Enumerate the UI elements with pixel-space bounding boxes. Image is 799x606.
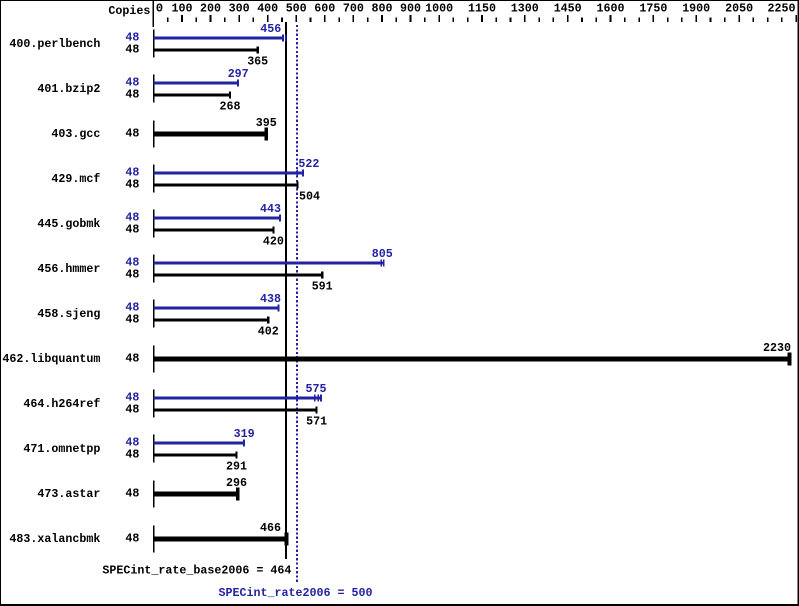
bar 483.xalancbmk base — [154, 533, 289, 546]
bar 401.bzip2 peak — [154, 79, 240, 86]
svg-text:600: 600 — [314, 2, 335, 16]
group spine 471.omnetpp — [153, 435, 155, 463]
svg-text:48: 48 — [125, 448, 139, 462]
x-axis minor tick marks — [167, 18, 783, 23]
group spine 464.h264ref — [153, 390, 155, 418]
group spine 483.xalancbmk — [153, 526, 155, 553]
svg-text:500: 500 — [286, 2, 307, 16]
svg-text:462.libquantum: 462.libquantum — [2, 352, 100, 366]
svg-text:438: 438 — [260, 292, 281, 306]
svg-text:466: 466 — [260, 521, 281, 535]
svg-text:1450: 1450 — [554, 2, 582, 16]
svg-text:200: 200 — [200, 2, 221, 16]
group spine 445.gobmk — [153, 210, 155, 238]
bar 429.mcf peak — [154, 169, 304, 176]
SPECint_rate_base2006 mean solid line at 464 — [285, 22, 287, 559]
svg-text:48: 48 — [125, 532, 139, 546]
group spine 456.hmmer — [153, 255, 155, 283]
svg-text:401.bzip2: 401.bzip2 — [37, 82, 100, 96]
bar 400.perlbench base — [154, 46, 259, 53]
group spine 462.libquantum — [153, 346, 155, 373]
svg-text:473.astar: 473.astar — [37, 487, 100, 501]
svg-text:48: 48 — [125, 88, 139, 102]
svg-text:297: 297 — [228, 67, 249, 81]
bar 464.h264ref peak — [154, 394, 322, 401]
bar 403.gcc base — [154, 128, 269, 141]
x-axis scale labels — [156, 2, 796, 16]
svg-text:420: 420 — [263, 235, 284, 249]
group spine 473.astar — [153, 481, 155, 508]
svg-text:456.hmmer: 456.hmmer — [37, 262, 100, 276]
svg-text:1000: 1000 — [425, 2, 453, 16]
svg-text:2050: 2050 — [725, 2, 753, 16]
svg-text:0: 0 — [156, 2, 163, 16]
bar 445.gobmk base — [154, 226, 275, 233]
svg-text:1900: 1900 — [682, 2, 710, 16]
svg-text:268: 268 — [220, 100, 241, 114]
svg-text:800: 800 — [372, 2, 393, 16]
svg-text:429.mcf: 429.mcf — [51, 172, 100, 186]
svg-text:464.h264ref: 464.h264ref — [23, 397, 100, 411]
svg-text:48: 48 — [125, 403, 139, 417]
svg-text:456: 456 — [260, 22, 281, 36]
svg-text:296: 296 — [226, 476, 247, 490]
svg-text:700: 700 — [343, 2, 364, 16]
svg-text:900: 900 — [400, 2, 421, 16]
bar 429.mcf base — [154, 181, 299, 188]
svg-text:403.gcc: 403.gcc — [51, 127, 100, 141]
svg-text:SPECint_rate_base2006 = 464: SPECint_rate_base2006 = 464 — [102, 564, 292, 578]
bar 471.omnetpp peak — [154, 439, 246, 446]
svg-text:504: 504 — [299, 190, 321, 204]
svg-text:591: 591 — [312, 280, 333, 294]
bar 473.astar base — [154, 488, 240, 501]
bar 464.h264ref base — [154, 406, 318, 413]
group spine 400.perlbench — [153, 30, 155, 58]
SPECint_rate2006 mean dotted line at 500 — [296, 25, 298, 584]
svg-text:1150: 1150 — [468, 2, 496, 16]
svg-text:48: 48 — [125, 178, 139, 192]
svg-text:2230: 2230 — [763, 341, 791, 355]
svg-text:805: 805 — [372, 247, 393, 261]
x-axis major tick marks — [181, 15, 797, 22]
svg-text:445.gobmk: 445.gobmk — [37, 217, 101, 231]
svg-text:48: 48 — [125, 487, 139, 501]
svg-text:100: 100 — [172, 2, 193, 16]
svg-text:483.xalancbmk: 483.xalancbmk — [9, 532, 101, 546]
svg-text:571: 571 — [306, 415, 327, 429]
bar 401.bzip2 base — [154, 91, 231, 98]
bar 456.hmmer peak — [154, 259, 385, 266]
bar 458.sjeng base — [154, 316, 270, 323]
svg-text:48: 48 — [125, 127, 139, 141]
svg-text:365: 365 — [247, 55, 268, 69]
svg-text:48: 48 — [125, 268, 139, 282]
svg-text:575: 575 — [306, 382, 327, 396]
svg-text:300: 300 — [229, 2, 250, 16]
svg-text:471.omnetpp: 471.omnetpp — [23, 442, 100, 456]
y-axis baseline segment at value 0 — [153, 0, 155, 27]
svg-text:2250: 2250 — [768, 2, 796, 16]
svg-text:400: 400 — [257, 2, 278, 16]
svg-text:400.perlbench: 400.perlbench — [9, 37, 100, 51]
svg-text:522: 522 — [298, 157, 319, 171]
bar 445.gobmk peak — [154, 214, 281, 221]
svg-text:48: 48 — [125, 313, 139, 327]
bar 458.sjeng peak — [154, 304, 280, 311]
group spine 429.mcf — [153, 165, 155, 193]
group spine 401.bzip2 — [153, 75, 155, 103]
svg-text:291: 291 — [226, 460, 247, 474]
bar 471.omnetpp base — [154, 451, 238, 458]
bar 462.libquantum base — [154, 353, 792, 366]
svg-text:48: 48 — [125, 43, 139, 57]
svg-text:402: 402 — [258, 325, 279, 339]
svg-text:395: 395 — [256, 116, 277, 130]
svg-text:1300: 1300 — [511, 2, 539, 16]
svg-text:1600: 1600 — [597, 2, 625, 16]
group spine 403.gcc — [153, 121, 155, 148]
svg-text:1750: 1750 — [639, 2, 667, 16]
svg-text:458.sjeng: 458.sjeng — [37, 307, 100, 321]
svg-text:48: 48 — [125, 223, 139, 237]
svg-text:SPECint_rate2006 = 500: SPECint_rate2006 = 500 — [219, 586, 373, 600]
bar 456.hmmer base — [154, 271, 324, 278]
svg-text:48: 48 — [125, 352, 139, 366]
svg-text:Copies: Copies — [108, 4, 150, 18]
svg-text:319: 319 — [234, 427, 255, 441]
bar 400.perlbench peak — [154, 34, 287, 41]
svg-text:443: 443 — [260, 202, 281, 216]
group spine 458.sjeng — [153, 300, 155, 328]
